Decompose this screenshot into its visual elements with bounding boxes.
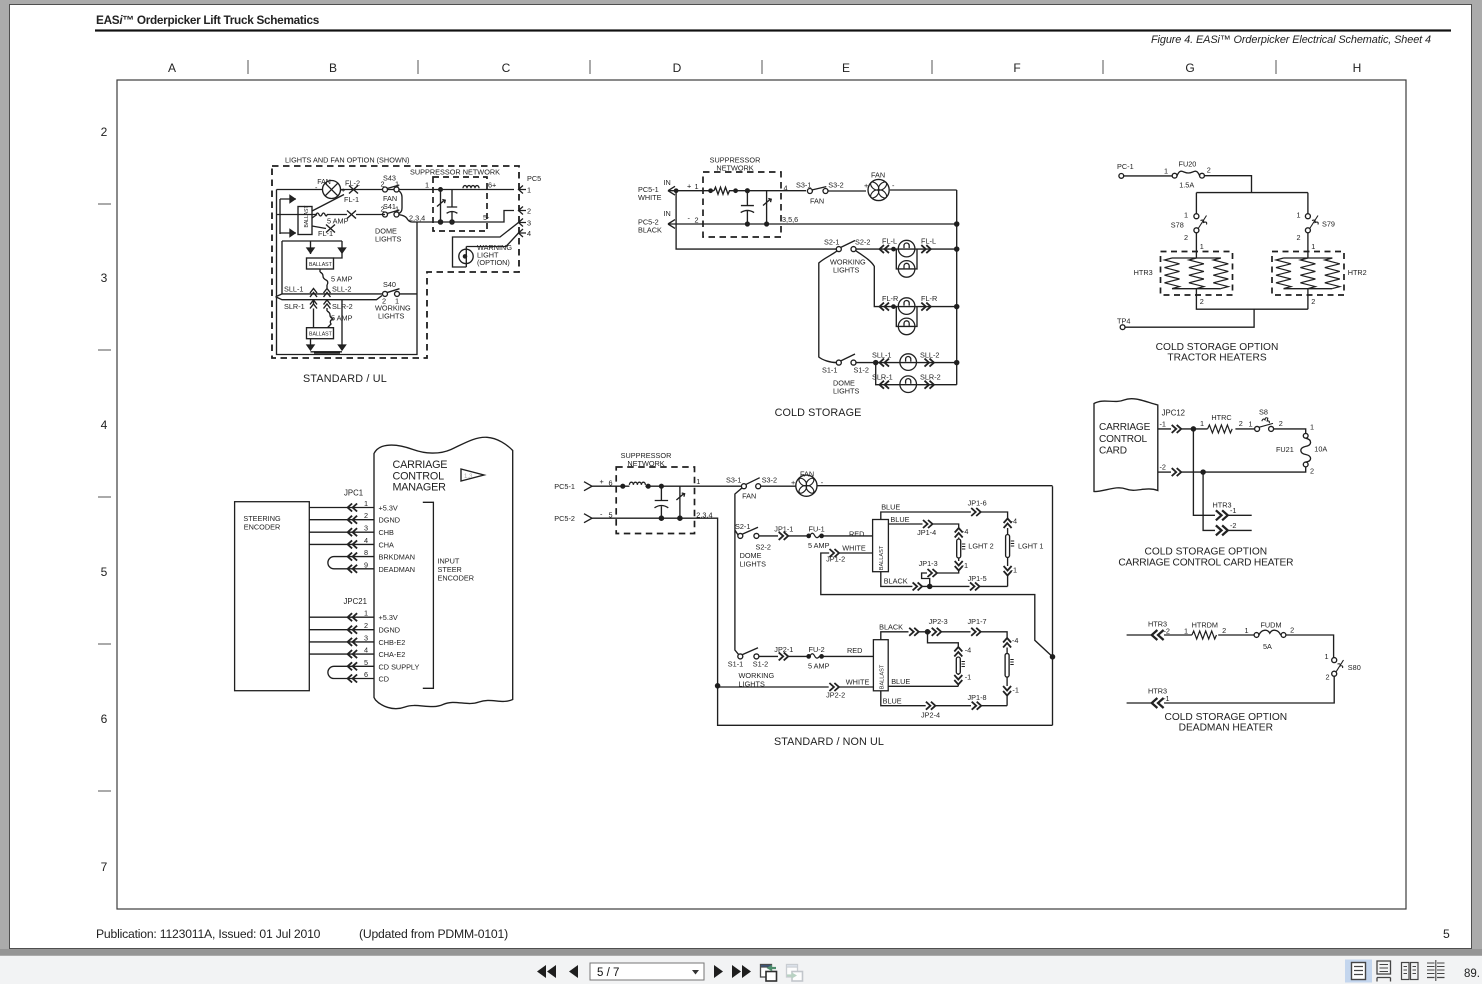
resistor HTRC xyxy=(1208,425,1233,433)
connector HTR3 -1 xyxy=(1216,510,1228,520)
prev page button xyxy=(569,965,578,978)
lamp LGHT 2 xyxy=(955,528,963,538)
switch S3 FAN xyxy=(807,189,812,194)
layout: continuous xyxy=(1377,961,1391,974)
layout: facing continuous xyxy=(1427,963,1445,974)
wire jog to left lamp xyxy=(928,632,959,647)
switch S40 WORKING LIGHTS xyxy=(383,291,388,296)
column letters xyxy=(168,61,1361,75)
switch S41 DOME LIGHTS xyxy=(383,212,388,217)
fuse 5 AMP + ballast B3 xyxy=(314,300,334,328)
varistor branch xyxy=(763,191,771,224)
row ticks xyxy=(98,204,111,791)
heater HTR3 box xyxy=(1161,252,1233,296)
drawing frame xyxy=(117,80,1406,909)
layout: facing xyxy=(1402,963,1410,980)
column ticks xyxy=(248,60,1276,74)
wire dome row to 2,3,4 bus xyxy=(399,211,514,223)
switch S2 WORKING LIGHTS xyxy=(836,247,841,252)
ballast B1 assembly xyxy=(280,199,296,234)
warning light lamp xyxy=(459,249,473,263)
fuse 5 AMP to SLL-2 xyxy=(320,269,328,288)
switch S1 DOME LIGHTS xyxy=(836,360,841,365)
wire minus row and bottom return xyxy=(592,518,1053,725)
wire PC5 pin3 to warning light xyxy=(453,223,519,268)
last page button xyxy=(732,965,751,978)
wire S43 to S41 loop xyxy=(399,191,403,214)
wire fan row xyxy=(277,189,515,191)
wire to fuse FU20 xyxy=(1124,175,1173,177)
first page button xyxy=(537,965,556,978)
switch S43 FAN xyxy=(383,187,388,192)
wire PC5 pin4 xyxy=(466,233,518,267)
wire minus bus xyxy=(668,223,957,225)
option boundary dashed box xyxy=(272,166,519,358)
wire S2-2 row xyxy=(759,535,873,537)
wires JPC21 pins 5,6 jumper loop xyxy=(328,666,374,678)
varistor RV1 xyxy=(437,190,445,223)
switch S78 thermal xyxy=(1194,214,1199,219)
switch S8 thermal xyxy=(1255,426,1260,431)
wire to tee xyxy=(1196,176,1308,214)
lamp LGHT 1 xyxy=(1004,519,1012,529)
wire BLUE JP1-6 row xyxy=(881,512,1008,520)
wire S2-1 feed down to S1 xyxy=(819,251,837,363)
layout: single page (selected) xyxy=(1345,960,1372,983)
wire ballast feed row xyxy=(277,214,348,216)
title rule xyxy=(95,29,1451,31)
wire WHITE JP1-2 return xyxy=(821,553,1053,657)
fuse 5 AMP xyxy=(316,213,327,216)
wire feed to S2 xyxy=(676,191,837,249)
arrow IN PC5-1 xyxy=(668,186,675,195)
S3 fan switch xyxy=(741,484,746,489)
carriage control manager outline xyxy=(374,437,513,708)
wire WHITE JP2-2 row xyxy=(718,686,874,688)
wires JPC1 pins 8,9 jumper loop xyxy=(328,557,374,569)
capacitor branch xyxy=(741,191,754,224)
wire HTR3 -2 row xyxy=(1127,635,1334,658)
fuse FU20 1.5A xyxy=(1172,173,1177,178)
suppressor network box xyxy=(433,177,487,231)
wire to terminal TP4 xyxy=(1125,291,1308,327)
wires JPC21 pins 1-4 xyxy=(309,617,374,654)
connector FL-2/FL-1 xyxy=(349,186,358,194)
wire JP1-3 jog xyxy=(922,571,959,587)
connector JPC21 chevrons xyxy=(348,613,358,621)
resistor HTRDM xyxy=(1192,631,1217,639)
terminal PC-1 xyxy=(1119,174,1124,179)
page number box xyxy=(590,963,704,980)
bracket input steer encoder xyxy=(423,502,434,688)
switch S79 thermal xyxy=(1305,214,1310,219)
wires JPC1 pins 1-4 xyxy=(309,508,374,545)
wire BLUE mid row xyxy=(888,685,958,687)
heater HTR3 elements xyxy=(1172,256,1221,291)
row numbers xyxy=(101,125,108,874)
wire left feed to switches xyxy=(735,488,742,657)
wires to HTR3 pins xyxy=(1193,429,1215,531)
connector FL-L + lamp FL-L xyxy=(880,245,890,253)
wire plus bus xyxy=(668,190,806,192)
capacitor C1 xyxy=(447,190,458,223)
revision flag 1,3 xyxy=(461,469,484,481)
connector PC5 pins 1-4 xyxy=(519,186,527,194)
suppressor network dashed box xyxy=(703,172,781,237)
wire JPC12 pin -2 row xyxy=(1158,471,1171,473)
SLL-1 SLL-2 connectors xyxy=(310,289,317,298)
fan motor symbol xyxy=(868,179,889,200)
resistor suppressor xyxy=(714,187,730,194)
previous view icon xyxy=(761,965,772,978)
wire JPC12 pin -1 row xyxy=(1158,429,1306,434)
next page button xyxy=(714,965,723,978)
wire SLL/SLR pair xyxy=(276,294,383,300)
lamp right block2 xyxy=(1003,638,1011,648)
wire BLUE JP1-4 row xyxy=(888,524,958,528)
wire return loop left/bottom xyxy=(277,190,418,355)
inductor xyxy=(629,482,645,485)
wire BLACK JP1-5 row xyxy=(881,572,1008,587)
fan symbol xyxy=(796,475,817,496)
svg-text:89.: 89. xyxy=(1464,968,1480,980)
fan wire to right bus xyxy=(817,486,1053,726)
fuse FUDM 5A xyxy=(1254,633,1259,638)
wire S2-2 to FL-L row xyxy=(856,248,957,250)
connector PC5-1 xyxy=(584,482,592,491)
SLR-1 SLR-2 connectors xyxy=(310,300,317,309)
capacitor branch xyxy=(655,486,669,518)
connector FL-1 xyxy=(347,211,356,219)
wire S1-2 to SLL row + lamp SLL xyxy=(856,362,957,364)
wire HTR3 -1 row xyxy=(1127,676,1335,703)
svg-text:5 / 7: 5 / 7 xyxy=(597,967,619,979)
next view icon (disabled) xyxy=(787,965,798,978)
fan FL (circle with X) xyxy=(323,181,341,199)
switch S2 DOME LIGHTS xyxy=(738,533,743,538)
carriage control card outline xyxy=(1094,399,1158,492)
wire SLL ballast loop xyxy=(282,241,342,294)
wire to FL-R row + connector + lamp xyxy=(856,251,957,307)
connector JPC1 chevrons xyxy=(348,504,358,512)
suppressor network box xyxy=(616,467,694,534)
ballast B2 xyxy=(307,258,334,269)
switch S1 WORKING LIGHTS xyxy=(738,654,743,659)
fuse FU21 10A xyxy=(1303,433,1308,438)
arrow IN PC5-2 xyxy=(668,220,675,229)
wire BLUE JP2-4 JP1-8 row xyxy=(881,691,1007,706)
wire fan to right bus xyxy=(890,190,957,385)
lamp left block2 xyxy=(954,647,962,657)
connector PC5-2 xyxy=(584,514,592,523)
switch S80 thermal xyxy=(1332,658,1337,663)
wire S1-2 row xyxy=(759,655,874,657)
lamp FL-L lower parallel xyxy=(896,249,917,269)
steering encoder box xyxy=(235,502,310,691)
ballast dome xyxy=(873,520,889,572)
wire BLACK JP2-3 JP1-7 row xyxy=(881,632,1007,640)
inductor L1 xyxy=(463,186,479,189)
wire plus row xyxy=(592,485,742,487)
varistor branch xyxy=(676,486,684,518)
ballast working xyxy=(873,640,888,691)
heater HTR2 box xyxy=(1272,252,1344,296)
